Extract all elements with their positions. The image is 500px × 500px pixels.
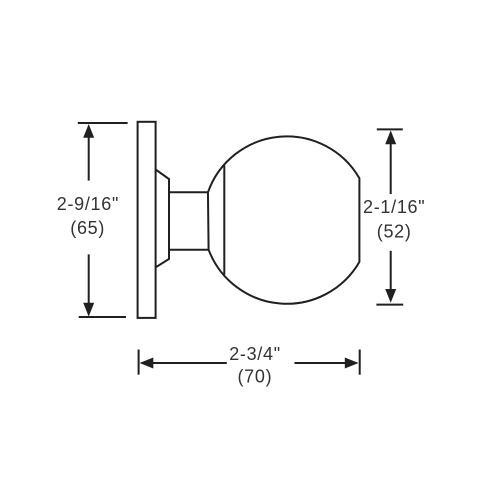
svg-text:(70): (70) (237, 367, 272, 387)
svg-text:2-3/4": 2-3/4" (229, 344, 281, 364)
svg-text:(52): (52) (377, 222, 412, 242)
svg-text:(65): (65) (70, 218, 105, 238)
svg-text:2-9/16": 2-9/16" (57, 194, 119, 214)
svg-text:2-1/16": 2-1/16" (363, 197, 425, 217)
